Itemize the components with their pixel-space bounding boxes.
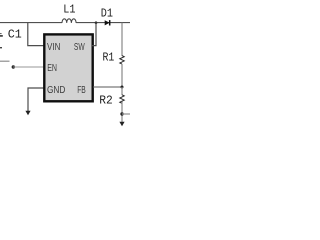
svg-text:L1: L1 [63, 3, 75, 17]
diode D1 [105, 20, 110, 25]
wire: stub at left edge (cut off) [0, 60, 10, 62]
wire: between R1 and FB node [121, 64, 123, 87]
node EN terminal dot [12, 65, 15, 68]
wire: top rail left segment (VIN net) [0, 22, 62, 24]
svg-text:VIN: VIN [47, 42, 60, 53]
wire: GND pin to ground [28, 88, 45, 112]
svg-text:C1: C1 [8, 27, 22, 41]
wire: top rail right segment (SW/diode net) [76, 22, 130, 24]
wire: FB node to R2 [121, 87, 123, 95]
wire: EN wire [13, 66, 45, 68]
inductor L1 [62, 19, 76, 23]
resistor R1 [120, 56, 124, 64]
node output junction [120, 112, 123, 115]
wire: output vertical top [121, 23, 123, 56]
wire: output stub to right edge [122, 113, 130, 115]
capacitor C1 (cut off at left edge) [0, 35, 3, 37]
ground arrow (right) [119, 122, 124, 127]
op-amp U1 regulator box [44, 34, 92, 101]
resistor R2 [120, 95, 124, 103]
svg-text:R1: R1 [103, 51, 115, 65]
svg-text:EN: EN [47, 63, 57, 74]
svg-text:SW: SW [74, 42, 85, 53]
wire: VIN drop vertical [28, 23, 45, 46]
wire: SW pin to rail [92, 23, 96, 46]
svg-text:GND: GND [47, 85, 65, 96]
ground arrow (left) [25, 111, 30, 116]
svg-text:FB: FB [77, 85, 86, 96]
svg-text:D1: D1 [101, 7, 113, 21]
wire: R2 to output node [121, 102, 123, 123]
wire: FB wire [93, 86, 122, 88]
node SW junction [95, 21, 98, 24]
node FB junction [121, 86, 124, 89]
svg-text:R2: R2 [99, 93, 113, 107]
